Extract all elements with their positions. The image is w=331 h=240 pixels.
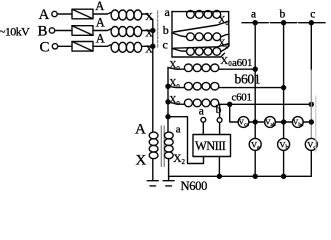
fuse FU-A (72, 9, 93, 19)
svg-text:N600: N600 (181, 179, 208, 193)
wire winding b end to right lead (221, 35, 229, 37)
voltmeter Vbc (292, 117, 304, 128)
neutral transformer secondary winding (164, 132, 173, 159)
svg-text:b: b (280, 8, 286, 20)
label A (primary winding A start) (95, 0, 104, 13)
wire terminal c to winding c (172, 48, 186, 51)
wire terminal a into WNIII (202, 122, 204, 134)
svg-text:A: A (39, 7, 50, 23)
wire secondary box bottom side (172, 53, 225, 57)
label a (busbar a) (251, 8, 256, 20)
svg-text:A: A (135, 122, 146, 138)
label X0 (aux winding c) (169, 95, 179, 107)
wire fuse C to winding (93, 45, 111, 47)
node WNIII terminal a (201, 117, 206, 122)
node aux common to WNIII (166, 115, 170, 119)
wire winding c end to right lead bottom (221, 46, 229, 52)
wire fuse A to winding (93, 13, 111, 15)
wire bus b to Vbc (284, 121, 293, 123)
voltmeter Vc (305, 138, 317, 151)
wire phase A terminal to fuse (57, 13, 72, 15)
wire busbar a drop (254, 23, 256, 177)
wire winding A end to neutral bus (142, 14, 153, 20)
svg-text:a: a (199, 106, 204, 118)
node aux c entry (166, 100, 170, 104)
svg-text:c: c (310, 8, 315, 20)
svg-text:Vc: Vc (307, 140, 316, 151)
label X (primary winding B end) (145, 29, 153, 40)
label a601 (232, 57, 252, 69)
node A (phase A terminal) (39, 7, 58, 23)
svg-text:b: b (163, 23, 169, 37)
auxiliary winding c (184, 99, 218, 107)
label X0 (aux winding a) (169, 60, 179, 72)
scan ghost line (grey) (315, 96, 317, 152)
node bus b meter row (282, 120, 286, 124)
svg-text:A: A (95, 0, 104, 13)
node busbar c (309, 21, 313, 25)
wire secondary a top side (172, 11, 229, 13)
node c601 branch to voltmeters (228, 102, 232, 106)
wire Vbc to bus c (303, 121, 311, 123)
auxiliary winding a (184, 64, 218, 72)
wire c601 to terminal b (219, 104, 221, 117)
node busbar a (253, 21, 257, 25)
svg-text:a: a (165, 5, 171, 19)
node bus c meter row (309, 120, 313, 124)
label A (primary winding C start) (96, 32, 105, 46)
label b601 (235, 72, 261, 87)
svg-text:Va: Va (251, 140, 260, 151)
primary winding A (voltage transformer TV1) (111, 10, 142, 20)
svg-text:X2: X2 (173, 153, 185, 166)
wire N600 bus (169, 175, 312, 177)
secondary winding a (187, 11, 221, 19)
label ~10kV source (0, 25, 30, 39)
wire phase C terminal to fuse (58, 45, 72, 47)
ground (primary neutral transformer) (147, 181, 158, 186)
wire c601 (219, 103, 311, 105)
wire Vca to bus a (249, 121, 255, 123)
wire b601 (219, 87, 283, 89)
svg-text:X0: X0 (169, 60, 179, 72)
ground (N600) (163, 181, 174, 186)
label a (secondary winding a start) (165, 5, 171, 19)
primary winding B (voltage transformer TV1) (111, 27, 142, 37)
primary winding C (voltage transformer TV1) (111, 42, 142, 52)
svg-text:B: B (38, 24, 48, 40)
label X0 (secondary winding a end) (218, 15, 228, 27)
node WNIII terminal b (217, 118, 222, 123)
wire winding C end to neutral bus (142, 45, 153, 47)
svg-text:A: A (96, 16, 105, 30)
wire primary neutral bus (152, 20, 154, 132)
svg-text:a601: a601 (232, 57, 252, 69)
svg-text:~10kV: ~10kV (0, 25, 30, 39)
wire X end a to terminal b (diagonal) (174, 21, 230, 32)
voltmeter Va (249, 138, 261, 151)
transformer core (upper) (157, 11, 159, 48)
secondary winding b (187, 33, 221, 41)
node aux b entry (166, 84, 170, 88)
node B (phase B terminal) (38, 24, 55, 40)
node a601 on bus a (253, 67, 257, 71)
svg-text:C: C (40, 39, 50, 55)
busbar a tick (242, 22, 268, 24)
label X (neutral transformer primary end) (136, 153, 147, 169)
wire secondary right lead line (228, 12, 230, 46)
label c601 (232, 92, 252, 104)
label X (primary winding A end) (145, 12, 153, 23)
node primary neutral junction B (151, 29, 155, 33)
wire aux a entry (168, 68, 184, 70)
node bus a on N600 (253, 174, 257, 178)
wire fuse B to winding (93, 29, 111, 31)
wire aux c entry (168, 102, 184, 105)
wire aux b entry (168, 86, 184, 87)
label X2 (neutral transformer secondary end) (173, 153, 185, 166)
svg-text:A: A (96, 32, 105, 46)
wire c601 branch down to voltmeter row (230, 104, 238, 122)
label a (neutral transformer secondary start) (176, 123, 181, 135)
label X0 (secondary winding c end) (220, 55, 232, 68)
wire bus a to Vab (255, 121, 264, 123)
node bus b on N600 (282, 174, 286, 178)
busbar b tick (270, 22, 297, 24)
voltmeter Vab (265, 117, 276, 128)
svg-text:WNIII: WNIII (195, 139, 226, 153)
svg-text:a: a (176, 123, 181, 135)
label c (secondary winding c start) (163, 38, 168, 52)
node WNIII on N600 bus (217, 174, 221, 178)
label N600 (181, 179, 208, 193)
wire winding B end to neutral bus (142, 30, 153, 32)
label X (primary winding C end) (145, 45, 153, 56)
node primary neutral junction C (151, 44, 155, 48)
svg-text:X0: X0 (169, 95, 179, 107)
svg-text:b: b (216, 104, 222, 116)
label b (WNIII terminal b) (216, 104, 222, 116)
fuse FU-C (72, 42, 93, 52)
svg-text:X0: X0 (169, 78, 179, 90)
label A (primary winding B start) (96, 16, 105, 30)
label A (neutral transformer primary start) (135, 122, 146, 138)
neutral transformer primary winding (149, 132, 158, 159)
node c601 on bus c (309, 102, 313, 106)
label b (secondary winding b start) (163, 23, 169, 37)
auxiliary winding group: common lead line (167, 67, 169, 131)
label X0 (secondary winding b end) (218, 39, 228, 51)
svg-text:a: a (251, 8, 256, 20)
wire WNIII to N600 bus (218, 157, 220, 177)
label X0 (aux winding b) (169, 78, 179, 90)
wire X end b to terminal c (diagonal) (174, 44, 230, 49)
node b601 on bus b (282, 86, 286, 90)
label c (busbar c) (310, 8, 315, 20)
label a (WNIII terminal a) (199, 106, 204, 118)
svg-text:b601: b601 (235, 72, 261, 87)
voltmeter Vb (278, 138, 290, 151)
svg-text:c601: c601 (232, 92, 252, 104)
wire a601 (219, 68, 255, 70)
auxiliary winding b (184, 82, 218, 90)
wire terminal b into WNIII (219, 123, 221, 135)
wire phase B terminal to fuse (55, 30, 72, 32)
wire aux common to WNIII left terminal (168, 117, 204, 164)
fuse FU-B (72, 26, 93, 36)
wire busbar b drop (283, 23, 285, 177)
busbar c tick (299, 22, 325, 24)
transformer core (neutral transformer) (161, 126, 164, 167)
wire Vab to bus b (275, 121, 283, 123)
wire primary end to ground (152, 159, 154, 181)
voltmeter Vca (238, 117, 249, 128)
label b (busbar b) (280, 8, 286, 20)
node bus a meter row (253, 120, 257, 124)
wire secondary end to N600 ground (168, 159, 170, 181)
harmonic eliminator WNIII (193, 135, 231, 157)
wire terminal b to winding b (172, 33, 186, 37)
secondary winding c (187, 48, 221, 56)
svg-text:c: c (163, 38, 168, 52)
svg-text:X: X (136, 153, 147, 169)
secondary star box: left lead line (171, 12, 173, 57)
node busbar b (282, 21, 286, 25)
node C (phase C terminal) (40, 39, 58, 55)
svg-text:Vb: Vb (279, 140, 288, 151)
wire busbar c drop (310, 23, 312, 70)
svg-text:X0: X0 (220, 55, 232, 68)
